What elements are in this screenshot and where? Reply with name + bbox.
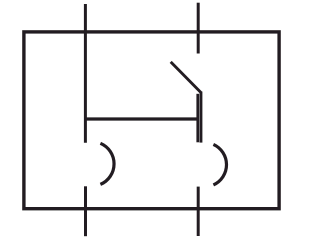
- breaker contact arc CB1 (left pole): [100, 143, 114, 184]
- wire: left pole bottom terminal: [84, 186, 87, 236]
- wire: left pole top terminal: [84, 4, 87, 143]
- mechanical tie bar between poles: [84, 117, 197, 120]
- wire: right pole conductor (left line): [196, 94, 199, 143]
- operating lever (diagonal handle): [171, 62, 201, 93]
- wire: right pole top terminal: [197, 3, 200, 54]
- lever shaft (right line): [199, 92, 202, 143]
- wire: right pole bottom terminal: [197, 187, 200, 236]
- breaker contact arc CB2 (right pole): [213, 144, 226, 185]
- breaker enclosure box: [24, 32, 279, 209]
